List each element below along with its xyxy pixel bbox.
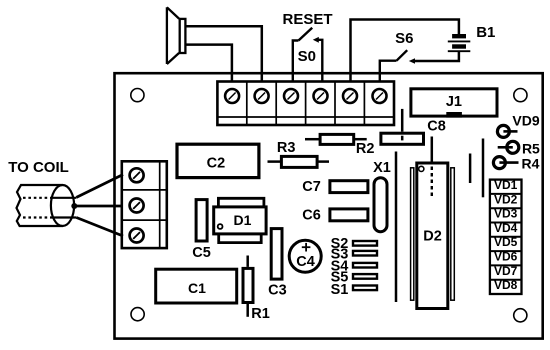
- svg-text:RESET: RESET: [282, 11, 332, 28]
- terminal screw 3: [284, 89, 298, 103]
- svg-text:S6: S6: [395, 30, 413, 47]
- svg-text:C7: C7: [302, 179, 321, 195]
- svg-text:C2: C2: [207, 156, 226, 172]
- switch S2: [353, 241, 377, 246]
- junction node at coil: [71, 203, 77, 209]
- terminal screw 1: [225, 89, 239, 103]
- svg-text:R5: R5: [522, 140, 540, 156]
- switch S6: [380, 50, 407, 82]
- wire coil to terminal A: [76, 175, 123, 198]
- resistor R2: [305, 134, 367, 144]
- switch S0: [293, 28, 323, 82]
- terminal screw 4: [314, 89, 328, 103]
- capacitor C6: [330, 209, 368, 221]
- PCB board outline: [115, 73, 543, 338]
- svg-text:X1: X1: [373, 160, 391, 176]
- wire coil to terminal B: [74, 205, 123, 208]
- switch S3: [353, 251, 377, 256]
- resistor R1: [243, 256, 253, 317]
- capacitor C1: [156, 269, 237, 303]
- svg-text:R4: R4: [522, 155, 540, 171]
- svg-text:C1: C1: [188, 280, 206, 296]
- coil terminal screw 2: [130, 199, 144, 213]
- speaker: [167, 7, 186, 64]
- coil terminal screw 1: [130, 168, 144, 182]
- coil cable icon: [17, 185, 77, 226]
- wire vertical bus left of D2: [395, 152, 398, 303]
- svg-text:C4: C4: [296, 254, 315, 270]
- capacitor C8: [381, 109, 424, 144]
- mounting hole top-left: [131, 89, 144, 102]
- terminal screw 5: [343, 89, 357, 103]
- svg-text:VD7: VD7: [494, 264, 518, 278]
- svg-text:R1: R1: [251, 306, 270, 322]
- diode VD9: [497, 125, 509, 137]
- crystal X1: [374, 178, 387, 232]
- svg-text:C3: C3: [268, 283, 287, 299]
- switch S4: [353, 263, 377, 268]
- battery B1: [448, 36, 471, 51]
- capacitor C2: [177, 144, 259, 177]
- svg-text:R3: R3: [277, 140, 296, 156]
- capacitor C5: [196, 200, 207, 241]
- svg-text:VD4: VD4: [494, 221, 518, 235]
- capacitor C4: [289, 240, 321, 272]
- svg-text:D2: D2: [423, 229, 442, 245]
- LED column VD1-VD8: [490, 180, 522, 294]
- svg-text:R2: R2: [356, 141, 375, 157]
- wire stub B right of D2: [482, 139, 485, 198]
- svg-text:TO COIL: TO COIL: [8, 159, 69, 176]
- mounting hole top-right: [514, 89, 527, 102]
- connector J1: [411, 89, 497, 116]
- svg-text:S0: S0: [298, 48, 316, 65]
- resistor R5: [507, 141, 519, 153]
- wire speaker bottom to terminal 1: [187, 45, 232, 82]
- capacitor C7: [330, 181, 368, 193]
- terminal block 3-way: [122, 161, 167, 248]
- svg-text:VD3: VD3: [494, 207, 518, 221]
- svg-text:C8: C8: [427, 119, 446, 135]
- diode D1: [214, 198, 266, 242]
- wire stub A right of D2: [469, 154, 472, 184]
- svg-text:B1: B1: [476, 24, 495, 41]
- terminal block 6-way: [217, 82, 394, 126]
- switch S1: [353, 286, 377, 291]
- svg-text:VD6: VD6: [494, 250, 518, 264]
- wire speaker top to terminal 2: [187, 26, 262, 82]
- svg-text:J1: J1: [446, 94, 462, 110]
- wire battery to S6: [414, 51, 459, 61]
- svg-text:D1: D1: [234, 212, 252, 228]
- IC D2: [411, 163, 455, 309]
- wire coil to terminal C: [76, 218, 123, 237]
- resistor R4: [493, 157, 505, 169]
- terminal screw 6: [373, 89, 387, 103]
- wire D2 top lead: [431, 137, 434, 162]
- switch S5: [353, 274, 377, 279]
- terminal screw 2: [255, 89, 269, 103]
- coil terminal screw 3: [130, 229, 144, 243]
- capacitor C3: [271, 229, 282, 280]
- resistor R3: [268, 156, 330, 167]
- mounting hole bottom-left: [131, 308, 144, 321]
- svg-text:C5: C5: [192, 245, 211, 261]
- svg-text:VD1: VD1: [494, 178, 518, 192]
- wire terminal 5 to battery: [351, 20, 459, 83]
- svg-text:C6: C6: [302, 207, 321, 223]
- svg-text:VD8: VD8: [494, 278, 518, 292]
- svg-text:S1: S1: [331, 282, 349, 298]
- svg-text:VD5: VD5: [494, 235, 518, 249]
- svg-text:VD2: VD2: [494, 192, 518, 206]
- svg-text:VD9: VD9: [512, 113, 539, 129]
- mounting hole bottom-right: [514, 309, 527, 322]
